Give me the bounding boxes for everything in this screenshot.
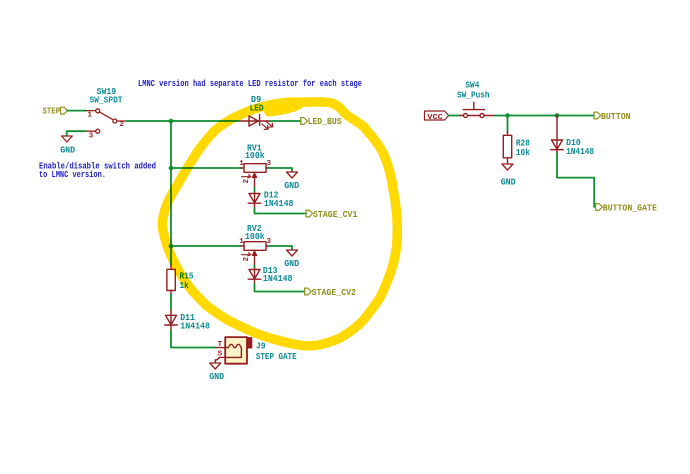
svg-text:LMNC version had separate LED: LMNC version had separate LED resistor f… xyxy=(138,79,362,89)
svg-text:1: 1 xyxy=(239,160,244,168)
svg-text:GND: GND xyxy=(60,144,75,155)
connector J9 labels xyxy=(256,340,297,362)
svg-text:3: 3 xyxy=(267,238,272,246)
svg-text:SW_SPDT: SW_SPDT xyxy=(90,94,123,105)
ground GND (below R28) xyxy=(501,164,516,187)
svg-text:2: 2 xyxy=(243,179,251,184)
svg-text:2: 2 xyxy=(120,121,125,129)
svg-text:STAGE_CV1: STAGE_CV1 xyxy=(313,210,358,220)
hierarchical label STEP xyxy=(43,107,68,117)
hierarchical label LED_BUS xyxy=(301,117,342,127)
diode D12 xyxy=(248,193,261,208)
wire D12 to STAGE_CV1 xyxy=(255,208,307,214)
resistor R15 xyxy=(167,265,175,295)
LED D9 xyxy=(240,115,273,130)
svg-text:100k: 100k xyxy=(245,231,265,242)
svg-text:T: T xyxy=(218,341,223,349)
wire SW19 pin3 to GND xyxy=(67,131,86,136)
diode D12 labels xyxy=(264,189,294,209)
diode D11 labels xyxy=(180,312,210,331)
wire RV1 wiper to D12 xyxy=(254,188,256,194)
resistor R28 xyxy=(503,132,511,164)
junction at (171,246) xyxy=(169,244,174,249)
wire RV2 pin3 to GND xyxy=(269,246,292,250)
junction at (171,168) xyxy=(169,166,174,171)
svg-text:GND: GND xyxy=(209,371,224,382)
wire junction to R28 xyxy=(507,116,509,132)
switch SW19 SPDT xyxy=(86,109,127,133)
wire VCC to SW4 xyxy=(449,115,460,117)
svg-text:LED_BUS: LED_BUS xyxy=(308,117,343,127)
svg-text:STEP GATE: STEP GATE xyxy=(256,351,297,362)
switch SW4 push button xyxy=(460,102,495,117)
resistor R28 labels xyxy=(516,138,530,158)
svg-text:VCC: VCC xyxy=(427,114,443,122)
svg-text:GND: GND xyxy=(284,180,299,191)
junction at (507.5,115.5) xyxy=(505,113,510,118)
svg-text:S: S xyxy=(218,351,223,359)
wire RV1 pin3 to GND xyxy=(269,168,292,172)
svg-text:2: 2 xyxy=(243,257,251,262)
hierarchical label BUTTON xyxy=(594,112,631,122)
svg-text:100k: 100k xyxy=(245,150,265,161)
svg-text:10k: 10k xyxy=(516,147,530,158)
diode D13 labels xyxy=(263,265,293,284)
svg-text:1: 1 xyxy=(88,111,93,119)
svg-text:GND: GND xyxy=(501,176,516,187)
potentiometer RV2 labels xyxy=(245,223,265,242)
wire LED to LED_BUS label xyxy=(270,120,301,122)
wire D10 to BUTTON_GATE xyxy=(557,153,594,207)
svg-text:STEP: STEP xyxy=(43,107,61,117)
switch SW19 labels xyxy=(90,86,123,105)
wire R15 to D11 xyxy=(170,295,172,310)
diode D11 xyxy=(165,310,178,330)
resistor R15 labels xyxy=(180,271,194,291)
ground GND (right of RV1) xyxy=(284,172,299,191)
svg-text:1: 1 xyxy=(239,238,244,246)
svg-text:1N4148: 1N4148 xyxy=(180,320,210,331)
svg-text:BUTTON_GATE: BUTTON_GATE xyxy=(603,203,658,213)
ground GND (right of RV2) xyxy=(284,250,299,269)
hierarchical label STAGE_CV1 xyxy=(306,210,358,220)
svg-text:3: 3 xyxy=(89,133,94,141)
diode D13 xyxy=(248,269,261,284)
svg-text:GND: GND xyxy=(284,258,299,269)
yellow highlighter ellipse xyxy=(162,102,397,346)
LED D9 labels xyxy=(250,94,264,114)
diode D10 labels xyxy=(566,137,594,157)
ground GND (below J9) xyxy=(209,363,224,382)
hierarchical label BUTTON_GATE xyxy=(596,203,658,213)
wire junction to RV1 pin1 xyxy=(171,167,241,169)
svg-text:BUTTON: BUTTON xyxy=(601,112,631,122)
wire main bus SW19 pin2 to LED D9 xyxy=(126,120,240,122)
note text: Enable/disable switch added to LMNC version. xyxy=(39,161,156,179)
svg-text:SW_Push: SW_Push xyxy=(457,90,490,101)
wire D11 to J9 xyxy=(171,330,216,348)
junction at (557,115.5) xyxy=(555,113,560,118)
svg-text:1N4148: 1N4148 xyxy=(263,273,293,284)
power label VCC xyxy=(425,111,449,122)
switch SW4 labels xyxy=(457,80,490,101)
wire junction to RV2 pin1 xyxy=(171,245,241,247)
potentiometer RV1 xyxy=(241,164,269,188)
junction at (171,121) xyxy=(169,119,174,124)
svg-text:1N4148: 1N4148 xyxy=(566,146,594,157)
potentiometer RV2 xyxy=(241,242,269,266)
ground GND (left of SW19) xyxy=(60,136,75,155)
wire vertical bus from junction down xyxy=(170,121,172,265)
svg-text:J9: J9 xyxy=(256,340,266,351)
wire RV2 wiper to D13 xyxy=(254,266,256,270)
svg-text:3: 3 xyxy=(267,160,272,168)
wire SW4 to BUTTON xyxy=(495,115,594,117)
potentiometer RV1 labels xyxy=(245,142,265,161)
wire STEP to SW19 pin1 xyxy=(68,110,87,112)
diode D10 xyxy=(551,116,564,154)
hierarchical label STAGE_CV2 xyxy=(305,288,356,298)
wire D13 to STAGE_CV2 xyxy=(255,284,305,292)
svg-text:STAGE_CV2: STAGE_CV2 xyxy=(312,288,356,298)
connector J9 audio jack xyxy=(215,337,252,364)
svg-text:1N4148: 1N4148 xyxy=(264,198,294,209)
svg-text:to LMNC version.: to LMNC version. xyxy=(39,170,106,180)
